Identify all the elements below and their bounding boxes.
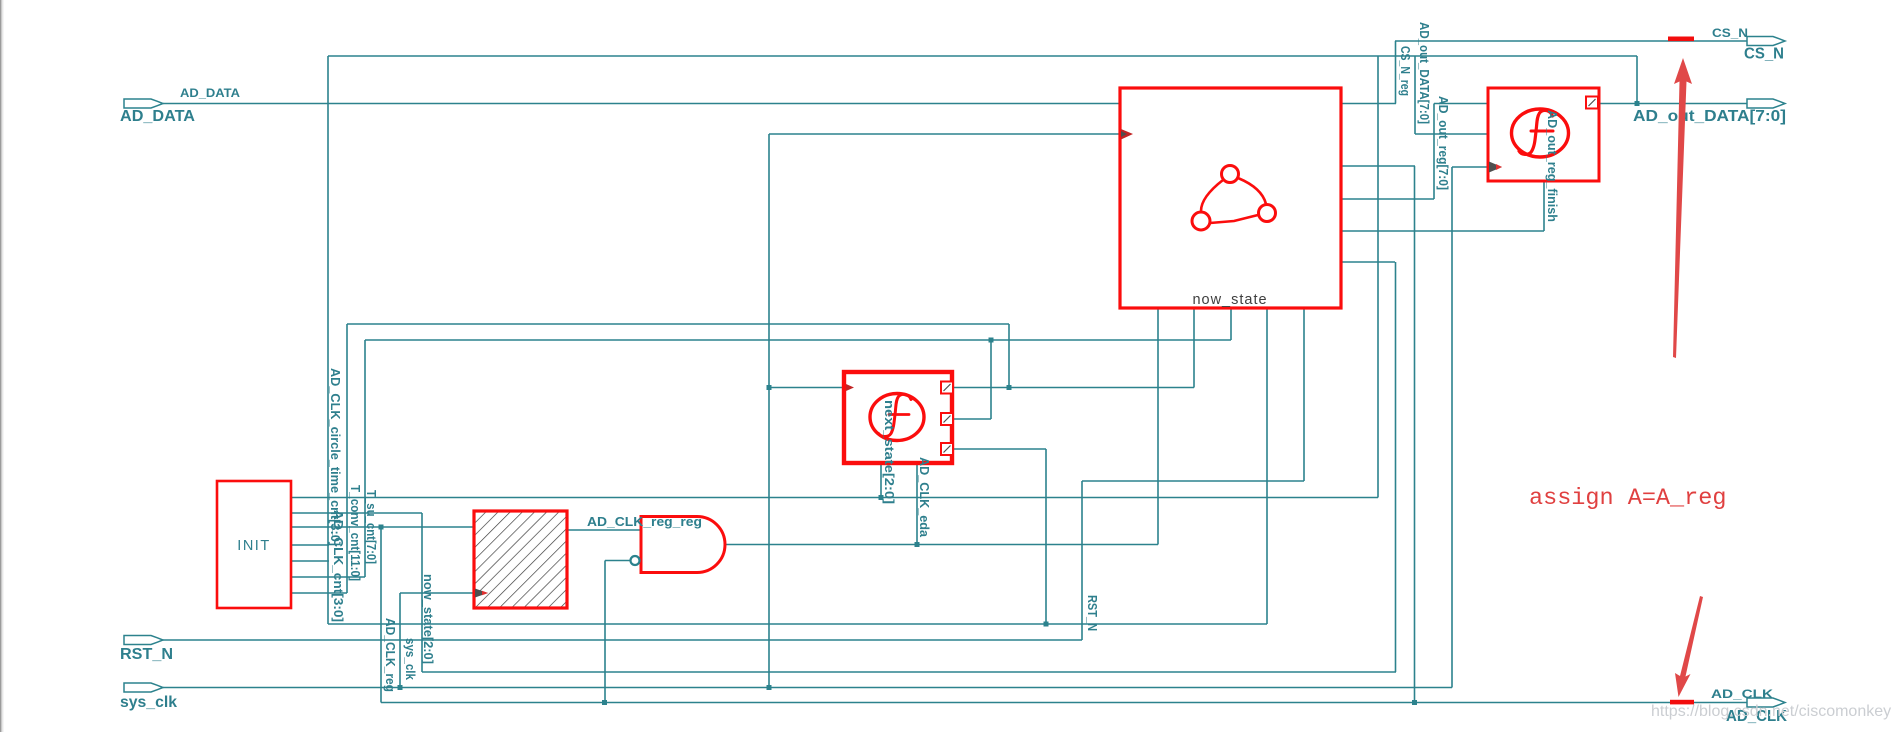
next_state FF notch pin3 <box>941 443 953 455</box>
wire AD_CLK_reg drop to AD_CLK net <box>1414 166 1416 703</box>
wire sys_clk to now_state clock <box>769 133 1120 135</box>
svg-text:AD_CLK_eda: AD_CLK_eda <box>917 457 931 538</box>
input port AD_DATA <box>120 86 240 125</box>
annotation red arrow down (AD_CLK) <box>1675 596 1703 697</box>
now_state icon edge B-C <box>1210 215 1258 223</box>
wire AD_CLK_reg drop <box>380 527 382 703</box>
svg-text:assign A=A_reg: assign A=A_reg <box>1529 485 1726 512</box>
wire sys_clk input net <box>163 687 1452 689</box>
wire AD_out_DATA bottom rail <box>328 623 1267 625</box>
next_state FF notch pin1 <box>941 382 953 394</box>
wire AD_out_reg riser to FF input <box>1433 104 1435 200</box>
svg-text:AD_CLK: AD_CLK <box>1711 687 1773 701</box>
svg-text:AD_out_DATA[7:0]: AD_out_DATA[7:0] <box>1417 22 1431 124</box>
wire RST_N input net <box>163 639 1082 641</box>
wire RST_N rail to now_state <box>1082 480 1304 482</box>
wire feedback riser right <box>1377 56 1379 498</box>
junction AD_out_DATA feedback join <box>1635 101 1640 106</box>
now_state icon node B <box>1192 212 1210 230</box>
wire next_state notch3 drop <box>1045 449 1047 624</box>
wire RST_N riser <box>1081 481 1083 640</box>
wire CS_N_reg riser <box>1395 41 1397 104</box>
latch clock arrow <box>475 589 488 598</box>
wire T_su drop to next_state notch2 <box>990 340 992 419</box>
wire RST_N riser to now_state <box>1303 308 1305 481</box>
wire AD_CLK_reg riser to AND input <box>604 561 606 703</box>
wire now_state output finish stub <box>1341 230 1544 232</box>
svg-text:now_state[2:0]: now_state[2:0] <box>421 574 435 664</box>
svg-text:AD_DATA: AD_DATA <box>120 108 195 125</box>
window left border <box>0 0 1 732</box>
wire AD_out_DATA left column <box>327 56 329 624</box>
wire now_state output CS_N_reg stub <box>1341 103 1396 105</box>
wire now_state bus drop from INIT <box>421 513 423 672</box>
wire sys_clk to next_state clock <box>769 387 843 389</box>
wire sys_clk to AD_out_reg FF clock <box>1452 166 1488 168</box>
svg-text:AD_out_DATA[7:0]: AD_out_DATA[7:0] <box>1633 108 1786 125</box>
wire latch output to AND gate <box>567 529 641 531</box>
wire T_su rail <box>365 339 1231 341</box>
svg-text:T_su_cnt[7:0]: T_su_cnt[7:0] <box>364 490 378 564</box>
svg-text:https://blog.csdn.net/ciscomon: https://blog.csdn.net/ciscomonkey <box>1651 703 1891 720</box>
wire AD_out_DATA FF output to port <box>1598 103 1747 105</box>
block now_state (state machine) <box>1120 88 1341 308</box>
svg-text:CS_N_reg: CS_N_reg <box>1398 46 1412 96</box>
junction sys_clk latch riser <box>398 685 403 690</box>
junction sys_clk main riser base <box>767 685 772 690</box>
junction next_state output join <box>879 495 884 500</box>
annotation red dash on CS_N <box>1668 37 1694 42</box>
svg-text:AD_DATA: AD_DATA <box>180 86 240 100</box>
svg-text:RST_N: RST_N <box>120 646 173 663</box>
now_state icon node A <box>1222 166 1239 183</box>
wire feedback drop at output <box>1636 56 1638 104</box>
wire INIT pin7 stub <box>291 592 347 594</box>
junction T_su notch2 drop <box>989 338 994 343</box>
wire T_conv column <box>346 324 348 593</box>
wire INIT pin6 stub <box>291 576 365 578</box>
svg-text:T_conv_cnt[11:0]: T_conv_cnt[11:0] <box>348 485 362 581</box>
next_state FF notch pin2 <box>941 413 953 425</box>
AND gate AD_CLK_reg_reg <box>641 517 725 573</box>
junction T_conv join on next_state rail <box>1007 385 1012 390</box>
next_state FF clock arrow <box>846 384 854 391</box>
wire INIT pin4 stub <box>291 544 329 546</box>
wire next_state FF notch3 stub <box>953 448 1046 450</box>
AD_out_reg FF clock arrow <box>1489 162 1502 173</box>
svg-text:RST_N: RST_N <box>1085 595 1099 631</box>
svg-text:sys_clk: sys_clk <box>120 694 177 711</box>
wire finish riser to FF bottom <box>1543 181 1545 231</box>
wire feedback rail AD_out_DATA top <box>328 55 1637 57</box>
junction AD_CLK_reg drop join <box>1412 700 1417 705</box>
input port sys_clk <box>120 683 177 711</box>
wire INIT pin5 stub <box>291 560 329 562</box>
annotation red dash on AD_CLK <box>1670 700 1694 705</box>
latch AD_CLK_reg (hatched) <box>474 511 567 608</box>
now_state clock arrow <box>1121 129 1133 140</box>
wire next_state FF output rail <box>953 387 1194 389</box>
annotation red arrow up (CS_N) <box>1673 58 1692 358</box>
output port AD_out_DATA[7:0] <box>1633 99 1786 125</box>
svg-text:AD_CLK_reg_reg: AD_CLK_reg_reg <box>587 515 702 529</box>
svg-text:INIT: INIT <box>237 538 270 554</box>
junction notch3 drop join <box>1044 622 1049 627</box>
svg-text:sys_clk: sys_clk <box>403 638 417 680</box>
wire T_su column <box>364 340 366 577</box>
junction AD_CLK_reg AND input riser <box>602 700 607 705</box>
wire CS_N net to port <box>1395 40 1747 42</box>
wire now_state output now_state bus stub <box>1341 261 1395 263</box>
wire now_state output AD_CLK_reg stub <box>1341 165 1415 167</box>
wire AD_CLK_eda riser <box>916 465 918 545</box>
wire next_state riser to now_state <box>1193 308 1195 388</box>
next_state FF ellipse f <box>870 394 924 441</box>
wire AD_CLK net to port <box>381 702 1747 704</box>
wire sys_clk main riser <box>768 134 770 688</box>
wire now_state bus bottom rail <box>422 671 1396 673</box>
svg-text:AD_out_reg_finish: AD_out_reg_finish <box>1545 110 1559 222</box>
wire INIT pin3 AD_CLK_reg stub <box>291 526 474 528</box>
wire next_state FF notch2 stub <box>953 418 991 420</box>
wire AD_out_DATA riser to now_state <box>1266 308 1268 624</box>
AND gate inverter bubble <box>631 556 640 565</box>
wire T_su riser to now_state <box>1230 308 1232 340</box>
block INIT <box>217 481 291 608</box>
wire INIT pin1 long rail <box>291 497 1378 499</box>
wire T_conv drop to next_state output rail <box>1008 324 1010 388</box>
junction AD_CLK_reg at INIT pin3 <box>379 525 384 530</box>
output port CS_N <box>1712 26 1785 63</box>
wire AD_DATA input net <box>163 103 1120 105</box>
junction AD_CLK_eda join <box>915 542 920 547</box>
svg-text:AD_CLK_reg: AD_CLK_reg <box>383 618 397 692</box>
now_state icon node C <box>1259 205 1276 222</box>
AD_out_reg FF output notch <box>1586 97 1598 109</box>
svg-text:CS_N: CS_N <box>1712 26 1748 40</box>
flip-flop next_state <box>844 372 952 463</box>
wire now_state output AD_out_reg stub <box>1341 198 1434 200</box>
wire sys_clk riser to latch <box>399 593 401 688</box>
svg-text:AD_out_reg[7:0]: AD_out_reg[7:0] <box>1436 96 1450 190</box>
svg-text:CS_N: CS_N <box>1744 46 1784 63</box>
wire AD_CLK_reg_reg riser to now_state <box>1157 308 1159 545</box>
wire AND gate inverted input stub <box>605 560 630 562</box>
svg-text:now_state: now_state <box>1192 292 1267 308</box>
flip-flop AD_out_reg <box>1488 88 1599 181</box>
svg-text:next_state[2:0]: next_state[2:0] <box>882 400 896 504</box>
now_state icon edge A-C <box>1238 178 1266 204</box>
wire AND gate output AD_CLK_reg_reg rail <box>726 544 1158 546</box>
wire sys_clk to latch clock <box>400 592 474 594</box>
output port AD_CLK <box>1711 687 1787 725</box>
svg-text:AD_CLK_cnt[3:0]: AD_CLK_cnt[3:0] <box>331 510 345 622</box>
wire AD_out_DATA feedback drop to FF <box>1414 56 1416 134</box>
wire T_conv rail <box>347 323 1009 325</box>
wire AD_out_reg FF data input D <box>1434 103 1488 105</box>
wire now_state bus drop right <box>1395 262 1397 672</box>
wire AD_out_DATA feedback into FF <box>1415 133 1488 135</box>
junction sys_clk next_state clock <box>767 385 772 390</box>
wire sys_clk riser to AD_out FF <box>1451 167 1453 688</box>
input port RST_N <box>120 636 173 664</box>
now_state icon edge A-B <box>1201 180 1223 211</box>
AD_out_reg FF ellipse f <box>1512 109 1569 157</box>
wire next_state output drop <box>880 465 882 498</box>
wire INIT pin2 now_state bus stub <box>291 512 422 514</box>
